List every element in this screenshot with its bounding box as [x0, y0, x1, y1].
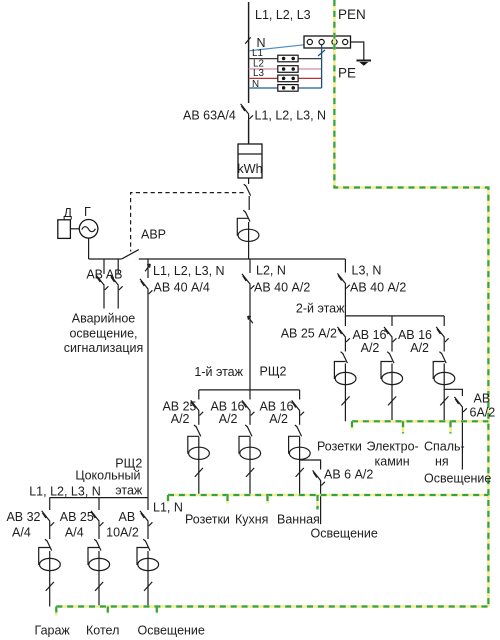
wire bus 1st floor: [199, 389, 300, 391]
svg-text:АВ 16: АВ 16: [352, 328, 386, 342]
svg-text:L2, N: L2, N: [256, 264, 286, 278]
RCD 2nd floor Спальня: [433, 362, 455, 385]
wire main bus left: [89, 258, 122, 260]
wire PE tap Ванная: [316, 495, 319, 510]
svg-text:Котел: Котел: [86, 624, 119, 638]
wire N from busbar: [318, 45, 325, 89]
svg-text:L1, N: L1, N: [153, 501, 183, 515]
node PEN tap slash: [245, 37, 250, 43]
wire basement Котел drop: [95, 551, 103, 607]
label АВ 63А/4: [183, 109, 236, 123]
svg-text:АВ: АВ: [86, 268, 103, 282]
wire PE bus 1st floor: [168, 494, 488, 497]
breaker 2nd floor Спальня: [436, 316, 448, 343]
wire feeder 1 upper: [145, 259, 150, 278]
label АВ 25 А/2 second floor: [281, 327, 337, 341]
wire feeder 2 down: [248, 290, 253, 390]
label Котел: [86, 624, 119, 638]
breaker basement Освещение: [140, 498, 152, 527]
wire PE tap Гараж: [55, 607, 58, 616]
svg-text:Розетки: Розетки: [317, 439, 362, 453]
breaker 2nd floor Розетки: [337, 316, 349, 343]
svg-text:АВР: АВР: [141, 228, 166, 242]
svg-text:Освещение: Освещение: [424, 472, 491, 486]
label АВ 16 А/2 кухня: [210, 400, 244, 427]
wire to main bus: [248, 222, 250, 259]
svg-text:Гараж: Гараж: [35, 624, 71, 638]
svg-text:L1: L1: [252, 48, 263, 59]
label АВ 16 А/2 ванная: [259, 400, 293, 427]
wire feeder 3 down: [344, 290, 346, 316]
wire 2nd floor Розетки drop: [341, 364, 349, 422]
svg-text:АВ 40 А/2: АВ 40 А/2: [350, 281, 406, 295]
svg-text:PE: PE: [338, 66, 356, 81]
svg-text:2-й этаж: 2-й этаж: [296, 302, 345, 316]
meter kWh: [237, 144, 262, 178]
contact 1st floor Кухня: [245, 417, 252, 437]
label АВ 25 А/2 first floor: [162, 400, 196, 427]
wire PE tap Освещение basement: [156, 607, 159, 614]
wire 1st floor Ванная drop: [296, 437, 304, 495]
contact 2nd floor Электрокамин: [387, 343, 394, 363]
svg-text:АВ 25: АВ 25: [60, 510, 94, 524]
RCD main: [237, 218, 259, 241]
label АВ 10А/2: [106, 510, 139, 540]
svg-text:L1, L2, L3, N: L1, L2, L3, N: [29, 485, 101, 499]
svg-text:АВ 25 А/2: АВ 25 А/2: [281, 327, 337, 341]
svg-text:10А/2: 10А/2: [106, 526, 139, 540]
wire main bus: [139, 258, 346, 260]
wire PEN/PE dashed main: [334, 0, 488, 607]
wire PE tap Электрокамин: [402, 421, 405, 433]
wire generator drop: [88, 238, 90, 259]
label L1, L2, L3, N feeder: [153, 264, 225, 278]
svg-text:6А/2: 6А/2: [470, 406, 496, 420]
svg-text:Кухня: Кухня: [235, 512, 268, 526]
label PE: [338, 66, 356, 81]
label Спальня: [424, 439, 465, 468]
label Д: [64, 206, 73, 220]
label АВ 16 А/2 спальня: [398, 328, 432, 355]
wire АВР control dashed: [131, 193, 244, 252]
label АВР: [141, 228, 166, 242]
wire bus 2nd floor: [345, 315, 444, 317]
RCD 2nd floor Электрокамин: [381, 362, 403, 385]
svg-text:этаж: этаж: [115, 484, 143, 498]
breaker АВ emergency 1: [96, 259, 108, 309]
contact 2nd floor Спальня: [439, 343, 446, 363]
svg-text:А/4: А/4: [65, 526, 84, 540]
terminal block rows: [278, 55, 298, 91]
wire PE tap Розетки 1st: [226, 495, 229, 504]
breaker 1st floor Розетки: [191, 390, 203, 417]
label L3, N: [352, 264, 382, 278]
node L3 row: [249, 68, 322, 79]
label РЩ2 first floor: [260, 365, 287, 379]
label Освещение basement: [138, 624, 205, 638]
breaker АВ 63А/4: [241, 104, 253, 120]
svg-text:L3: L3: [253, 68, 264, 79]
contact 2nd floor Розетки: [341, 343, 348, 363]
RCD 1st floor Кухня: [239, 436, 261, 459]
breaker АВ 40 А/4: [140, 279, 152, 295]
svg-text:Спаль-: Спаль-: [424, 439, 465, 453]
svg-text:А/2: А/2: [361, 341, 380, 355]
wire PE tap Кухня: [266, 495, 269, 504]
svg-text:АВ 6 А/2: АВ 6 А/2: [324, 468, 373, 482]
label L1, N: [153, 501, 183, 515]
contact АВР main: [244, 184, 251, 210]
wire PE tap left 1st: [167, 495, 170, 503]
label Розетки 2nd: [317, 439, 362, 453]
wire basement Гараж drop: [46, 551, 54, 607]
svg-text:сигнализация: сигнализация: [64, 341, 144, 355]
wire feeder 3 upper: [337, 259, 349, 290]
svg-text:А/2: А/2: [410, 341, 429, 355]
ground: [357, 61, 372, 66]
svg-text:Освещение: Освещение: [311, 527, 378, 541]
generator Г: [79, 220, 98, 239]
svg-text:АВ 32: АВ 32: [6, 510, 40, 524]
svg-text:L1, L2, L3, N: L1, L2, L3, N: [153, 264, 225, 278]
label Ванная: [277, 512, 320, 526]
wire engine to generator: [70, 228, 79, 230]
breaker АВ emergency 2: [110, 259, 122, 309]
wire meter to switch: [248, 178, 250, 184]
node L2 row: [249, 59, 322, 70]
label АВ 32 А/4: [6, 510, 40, 540]
node N row: [249, 79, 322, 90]
wire N tap to PEN busbar: [249, 44, 308, 51]
label Кухня: [235, 512, 268, 526]
svg-text:Розетки: Розетки: [185, 512, 230, 526]
wire PE bus bottom: [56, 605, 488, 608]
contact АВР generator side: [122, 250, 139, 259]
label L1, L2, L3, N after breaker: [255, 109, 327, 123]
contact АВР main 2: [243, 210, 250, 221]
svg-text:камин: камин: [375, 455, 410, 469]
svg-text:1-й этаж: 1-й этаж: [194, 365, 243, 379]
svg-text:АВ: АВ: [106, 268, 123, 282]
wire incoming supply line: [248, 2, 250, 144]
svg-text:Аварийное: Аварийное: [72, 312, 136, 326]
label АВ 40 А/4: [154, 281, 210, 295]
wire bus basement: [50, 497, 148, 499]
RCD basement Гараж: [39, 548, 61, 571]
label L1, L2, L3 incoming: [255, 8, 311, 22]
label Электрокамин: [367, 439, 419, 468]
wire 2nd floor Электрокамин drop: [388, 364, 396, 422]
contact basement Гараж: [45, 527, 52, 551]
svg-text:Освещение: Освещение: [138, 624, 205, 638]
svg-text:АВ: АВ: [119, 510, 136, 524]
svg-text:L1, L2, L3: L1, L2, L3: [255, 8, 311, 22]
label АВ 6 А/2 first: [324, 468, 373, 482]
engine box Д: [58, 220, 71, 239]
wire PE bus 2nd floor: [352, 420, 488, 423]
label Освещение 1st: [311, 527, 378, 541]
node N: [257, 36, 266, 50]
wire PE tap Спальня: [449, 421, 452, 433]
wire 1st floor Кухня drop: [246, 437, 254, 495]
svg-text:А/2: А/2: [171, 412, 190, 426]
breaker 1st floor Ванная: [292, 390, 304, 417]
breaker basement Гараж: [42, 498, 54, 527]
breaker basement Котел: [91, 498, 103, 527]
label Розетки 1st: [185, 512, 230, 526]
label 1-й этаж: [194, 365, 243, 379]
RCD basement Освещение: [137, 548, 159, 571]
svg-text:ня: ня: [435, 455, 449, 469]
label PEN: [338, 7, 366, 22]
wire feeder 1 down: [147, 295, 149, 498]
label АВ 1: [86, 268, 103, 282]
label Освещение 2nd: [424, 472, 491, 486]
contact basement Освещение: [143, 527, 150, 551]
wire 1st floor Розетки drop: [195, 437, 203, 495]
label Гараж: [35, 624, 71, 638]
svg-text:Г: Г: [84, 205, 91, 219]
label Г: [84, 205, 91, 219]
label АВ 25 А/4: [60, 510, 94, 540]
svg-text:kWh: kWh: [237, 162, 262, 176]
node L1 row: [249, 48, 322, 59]
wire feeder 2 upper: [242, 259, 254, 290]
wire PE tap Розетки 2nd: [351, 421, 354, 429]
svg-text:L3, N: L3, N: [352, 264, 382, 278]
contact 1st floor Ванная: [295, 417, 302, 437]
wire basement Освещение drop: [144, 551, 152, 607]
svg-text:Ванная: Ванная: [277, 512, 320, 526]
label Аварийное освещение сигнализация: [64, 312, 144, 356]
wire PE tap Котел: [107, 607, 110, 614]
svg-text:Д: Д: [64, 206, 73, 220]
label АВ 6А/2: [470, 392, 496, 420]
svg-text:освещение,: освещение,: [69, 326, 137, 340]
contact basement Котел: [94, 527, 101, 551]
wire PE to earth: [351, 42, 364, 61]
label РЩ2 Цокольный этаж: [75, 457, 143, 498]
breaker АВ 6 А/2 first floor: [300, 460, 325, 524]
RCD basement Котел: [88, 548, 110, 571]
PEN splitter busbar: [304, 36, 351, 48]
svg-text:АВ 40 А/2: АВ 40 А/2: [254, 281, 310, 295]
svg-text:АВ 16: АВ 16: [398, 328, 432, 342]
svg-text:АВ 40 А/4: АВ 40 А/4: [154, 281, 210, 295]
svg-text:РЩ2: РЩ2: [260, 365, 287, 379]
svg-text:Электро-: Электро-: [367, 439, 419, 453]
wire 2nd floor Спальня drop: [440, 364, 448, 422]
svg-text:АВ: АВ: [474, 392, 491, 406]
breaker 2nd floor Электрокамин: [384, 316, 396, 343]
label АВ 2: [106, 268, 123, 282]
RCD 1st floor Ванная: [289, 436, 311, 459]
breaker АВ 6А/2 second floor: [444, 389, 467, 469]
label АВ 40 А/2 second: [350, 281, 406, 295]
svg-text:PEN: PEN: [338, 7, 366, 22]
contact 1st floor Розетки: [194, 417, 201, 437]
svg-text:А/2: А/2: [269, 412, 288, 426]
svg-text:Цокольный: Цокольный: [75, 469, 140, 483]
svg-text:А/4: А/4: [12, 526, 31, 540]
svg-text:L1, L2, L3, N: L1, L2, L3, N: [255, 109, 327, 123]
svg-text:А/2: А/2: [219, 412, 238, 426]
label АВ 16 А/2 electrокамин: [352, 328, 386, 355]
svg-text:АВ 63А/4: АВ 63А/4: [183, 109, 236, 123]
label L1, L2, L3, N basement: [29, 485, 101, 499]
label АВ 40 А/2 first: [254, 281, 310, 295]
label L2, N: [256, 264, 286, 278]
breaker 1st floor Кухня: [242, 390, 254, 417]
RCD 1st floor Розетки: [188, 436, 210, 459]
label 2-й этаж: [296, 302, 345, 316]
RCD 2nd floor Розетки: [334, 362, 356, 385]
